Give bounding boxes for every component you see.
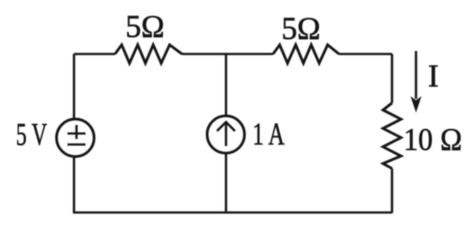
resistor R1 5ohm (top-left zigzag): [115, 45, 182, 63]
wire top-middle segment: [182, 53, 273, 55]
wire middle branch upper: [225, 54, 227, 116]
voltage source plus sign: [68, 125, 86, 139]
current arrow I head: [412, 98, 421, 112]
svg-text:5 V: 5 V: [16, 116, 47, 152]
svg-text:10 Ω: 10 Ω: [404, 121, 463, 157]
wire left branch upper: [73, 54, 75, 120]
current source arrowhead: [217, 122, 235, 131]
current source arrow shaft: [225, 122, 227, 146]
current arrow I shaft: [415, 51, 417, 99]
wire right branch upper: [391, 54, 393, 103]
voltage source V1 circle: [57, 119, 95, 157]
wire top-left segment: [74, 53, 115, 55]
wire bottom: [73, 211, 392, 213]
current source I1 circle: [207, 116, 244, 153]
wire left branch lower: [73, 157, 75, 214]
svg-text:I: I: [428, 57, 439, 93]
wire top-right segment: [339, 53, 392, 55]
voltage source minus sign: [68, 143, 86, 145]
wire right branch lower: [391, 169, 393, 214]
wire middle branch lower: [225, 153, 227, 213]
svg-text:5Ω: 5Ω: [282, 10, 321, 46]
svg-text:5Ω: 5Ω: [126, 8, 165, 44]
resistor R2 5ohm (top-right zigzag): [273, 45, 339, 63]
resistor R3 10ohm (vertical zigzag): [383, 103, 401, 169]
svg-text:1 A: 1 A: [253, 115, 285, 151]
